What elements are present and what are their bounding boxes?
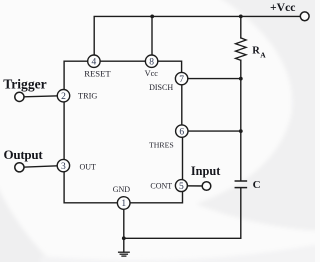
svg-text:A: A: [260, 51, 266, 60]
svg-text:Trigger: Trigger: [3, 77, 47, 92]
svg-text:THRES: THRES: [149, 140, 174, 149]
svg-text:3: 3: [61, 162, 66, 172]
svg-text:R: R: [252, 45, 260, 56]
svg-text:2: 2: [61, 92, 66, 102]
svg-text:DISCH: DISCH: [149, 83, 173, 92]
svg-text:TRIG: TRIG: [78, 92, 97, 101]
svg-text:C: C: [253, 179, 261, 191]
svg-text:+Vcc: +Vcc: [270, 1, 295, 14]
svg-text:1: 1: [121, 199, 126, 209]
svg-text:Output: Output: [4, 147, 44, 162]
svg-text:RESET: RESET: [84, 68, 111, 78]
svg-text:8: 8: [149, 57, 154, 67]
svg-text:5: 5: [179, 182, 184, 192]
svg-text:OUT: OUT: [80, 162, 97, 171]
svg-text:7: 7: [179, 75, 184, 85]
svg-text:GND: GND: [113, 185, 131, 194]
svg-text:4: 4: [92, 57, 97, 67]
svg-text:Input: Input: [191, 164, 221, 178]
svg-text:CONT: CONT: [150, 181, 172, 190]
svg-text:6: 6: [179, 127, 184, 137]
svg-text:Vcc: Vcc: [145, 69, 159, 78]
